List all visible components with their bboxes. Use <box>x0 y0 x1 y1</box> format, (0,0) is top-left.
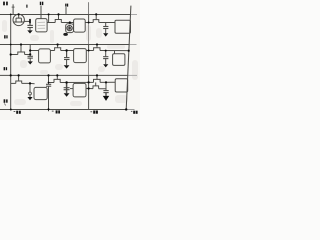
ground under C4 (filled triangle) <box>64 65 70 68</box>
junction dots <box>10 13 130 110</box>
wire: top supply bus (net +U) <box>0 14 137 16</box>
node: U1 lead on bus1 <box>48 13 50 15</box>
node: C6 lead on bus3 <box>47 74 49 76</box>
wire: lead bus3 down through cap C6 to bottom bus <box>48 75 50 84</box>
capacitor C6 (row3, beside U7) <box>46 84 51 111</box>
box U2 (IF block row1) <box>74 19 86 32</box>
wire: second bus <box>0 44 137 46</box>
node: C7 top row3 <box>65 81 67 83</box>
wire: lead below label T2 <box>65 7 67 14</box>
ground arrow under C8 (large filled triangle) <box>103 96 109 101</box>
node: right rail row2 wire <box>128 50 130 52</box>
wire: row3 mid wire <box>49 82 55 84</box>
capacitor C8 with lead (row4) <box>103 82 108 96</box>
label R2 left <box>4 35 6 38</box>
wire: step node to box U4 <box>30 50 38 52</box>
wire: VT8 to VT9 <box>60 81 93 83</box>
node: VT8 gate on bus3 <box>56 74 58 76</box>
wire: VT9 to box U9 <box>100 81 115 83</box>
wire: U5 to VT6 <box>86 50 93 52</box>
transistor VT4 (bump symbol row2 left) <box>18 44 25 54</box>
wire: third bus <box>0 74 137 76</box>
capacitor C1 with lead <box>27 19 33 30</box>
box U1 (crystal filter block) <box>36 19 47 32</box>
node: row3 wire at C6 <box>48 82 50 84</box>
wire: U4 to VT5 <box>50 50 54 52</box>
wire: stub above top bus at left <box>12 4 15 14</box>
wire: middle vertical rail <box>88 2 90 109</box>
node: step upper row2 <box>29 49 31 51</box>
node: left rail bottom bus <box>10 108 12 110</box>
label T2 <box>65 4 66 7</box>
transistor VT10 (bump symbol row4) <box>93 82 99 88</box>
capacitor C2 with lead (row1 right) <box>103 23 108 34</box>
node: mid rail row3 wire <box>88 81 90 83</box>
box U4 (row2 left block) <box>39 49 51 63</box>
ground under C5 (filled triangle) <box>103 64 108 67</box>
ground under C7 (filled triangle) <box>64 93 70 97</box>
node: C5 top row2 <box>105 50 107 52</box>
wire: VT1 drain to C1 junction <box>24 20 30 22</box>
ground under C2 (filled triangle) <box>103 33 108 36</box>
crystal ZQ1 (rounded case with spoked rotor) <box>66 23 74 33</box>
box U7 (row3 left block) <box>34 87 47 99</box>
node: crystal top on row1 wire <box>69 21 71 23</box>
wire: VT5 to box U5 <box>61 50 74 52</box>
label tick under R4 <box>4 103 5 105</box>
wire: VT2 to crystal node <box>61 22 73 24</box>
capacitor C4 with lead (row2 mid) <box>64 51 70 66</box>
capacitor C7 with thick lead (row3 mid) <box>64 83 70 94</box>
labels (tiny scanned designators) <box>3 2 137 114</box>
label T1 <box>40 2 42 5</box>
ground blob under crystal ZQ1 <box>63 33 68 36</box>
node: VT7 gate on bus3 <box>18 74 20 76</box>
transistor VT9 (bump symbol row3 right) <box>94 75 101 82</box>
wire: row4 wire from mid rail <box>89 88 93 90</box>
wire: lead bus1 down to row1 wire at box U1 right <box>48 14 50 22</box>
wire: right vertical rail (slightly slanted scan) <box>126 6 131 110</box>
capacitor C3 (row2 left) <box>28 56 33 61</box>
transistor VT2 (bump symbol on row1 wire) <box>55 14 61 22</box>
transistor VT6 (bump symbol row2 right) <box>94 44 100 50</box>
wire: row3 left wire <box>11 82 16 84</box>
node: left rail on bus2 <box>10 44 12 46</box>
node: VT2 gate on bus1 <box>57 13 59 15</box>
label 88 bottom-right <box>131 110 133 112</box>
node: mid rail row2 wire <box>88 50 90 52</box>
wire: VT4 to step node <box>25 54 31 56</box>
wire: lead down to box U6 top <box>114 51 116 54</box>
node: VT9 gate on bus3 <box>96 74 98 76</box>
node: output junction row3 <box>29 82 31 84</box>
box U3 (row1 far right) <box>115 20 131 33</box>
label 88 bottom-mid-left <box>52 110 54 112</box>
label 88 bottom-mid-right <box>90 111 92 113</box>
transistor VT8 (bump symbol row3 mid) <box>54 75 60 82</box>
node: left rail on bus1 <box>10 14 12 16</box>
wire: VT7 to output node <box>22 82 35 84</box>
wire: row2 left wire <box>11 54 18 56</box>
node: VT5 gate on bus2 <box>57 43 59 45</box>
label R3 left <box>4 67 6 70</box>
label 12 bottom-left <box>14 111 16 113</box>
wire: left vertical rail <box>10 14 12 109</box>
output terminal X1: lead, connector circle and arrow <box>27 83 32 100</box>
wire: row1 wire from U1 to VT2 <box>47 22 55 24</box>
node: VT3 gate on bus1 <box>95 13 97 15</box>
box U9 (row3 far right) <box>115 79 128 92</box>
node: left rail on bus3 <box>10 74 12 76</box>
ground under C3 (filled triangle) <box>28 61 33 64</box>
box U5 (row2 mid block) <box>74 49 87 63</box>
label pin 1 tick <box>26 5 27 8</box>
node: left rail row2 wire <box>10 53 12 55</box>
node: right rail bottom bus <box>125 108 127 110</box>
ground under C1 (filled triangle) <box>27 30 32 33</box>
scan noise smudges <box>2 20 138 106</box>
wire: VT10 to C8 <box>99 88 106 90</box>
transistor VT3 (bump symbol row1 right) <box>93 14 99 22</box>
wire: VT6 to right rail <box>100 50 129 52</box>
transistor VT5 (bump symbol row2 mid) <box>55 44 61 50</box>
box U6 (row2 far right) <box>113 54 125 66</box>
wire: VT3 to box U3 <box>99 22 115 24</box>
transistor VT7 (bump symbol row3 left) <box>16 75 22 83</box>
label R4 left <box>4 99 6 103</box>
node: VT6 gate on bus2 <box>96 43 98 45</box>
wire: lead bus2 down through step node <box>29 44 31 56</box>
wire: bottom bus <box>0 108 135 110</box>
capacitor C5 with lead (row2 right) <box>103 51 108 65</box>
transistor VT1 (metal-can, circle) <box>13 14 24 25</box>
node: VT4 gate on bus2 <box>20 43 22 45</box>
wire: U2 to VT3 <box>85 22 93 24</box>
node: C8 top row3 <box>105 81 107 83</box>
node: mid rail on row1 wire <box>88 22 90 24</box>
node: C6 lead bottom bus <box>48 108 50 110</box>
label R1 top-left <box>3 2 5 6</box>
wire: lead from label T1 down to box U1 top <box>40 6 42 19</box>
node: VT1 top on bus1 <box>18 13 20 15</box>
node: C4 top row2 <box>65 49 67 51</box>
node: C1 junction row1 <box>29 19 31 23</box>
node: U8 right row4 <box>88 87 90 89</box>
box U8 (row3 mid block) <box>70 83 89 97</box>
node: step lower row2 <box>29 53 31 55</box>
